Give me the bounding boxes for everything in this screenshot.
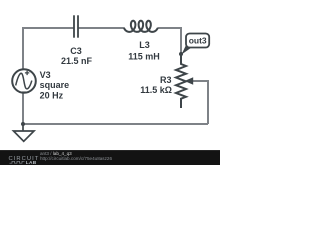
out3 flag tail xyxy=(182,44,192,55)
CircuitLab logo waveform xyxy=(10,161,25,163)
wire: capacitor to inductor xyxy=(79,27,125,29)
svg-text:square: square xyxy=(40,80,70,90)
svg-text:115 mH: 115 mH xyxy=(128,52,160,62)
svg-text:21.5 nF: 21.5 nF xyxy=(61,56,93,66)
svg-text:R3: R3 xyxy=(160,75,172,85)
ground xyxy=(14,124,35,141)
watermark bar xyxy=(0,150,220,165)
voltage source V3 xyxy=(12,69,36,93)
wire: left vertical and top segment to capacitor xyxy=(23,28,74,124)
wire: wiper to right rail xyxy=(193,81,208,124)
out3 flag xyxy=(186,34,209,48)
ground junction dot xyxy=(21,122,25,126)
svg-text:V3: V3 xyxy=(40,70,51,80)
svg-text:11.5 kΩ: 11.5 kΩ xyxy=(140,85,172,95)
svg-text:L3: L3 xyxy=(139,40,150,50)
wire: bottom rail xyxy=(23,123,208,125)
inductor L3 xyxy=(124,21,158,32)
wire: inductor to out3 node xyxy=(158,28,182,54)
resistor R3 wiper arrow xyxy=(185,77,194,84)
svg-text:http://circuitlab.com/c/75e4u8: http://circuitlab.com/c/75e4u8asz26 xyxy=(40,156,112,161)
resistor R3 (rheostat) zigzag xyxy=(176,54,186,108)
svg-text:LAB: LAB xyxy=(26,160,37,165)
node out3 junction dot xyxy=(179,52,183,56)
svg-text:C3: C3 xyxy=(70,46,82,56)
capacitor C3 xyxy=(74,15,78,37)
svg-text:20 Hz: 20 Hz xyxy=(40,90,64,100)
svg-text:out3: out3 xyxy=(189,35,207,45)
